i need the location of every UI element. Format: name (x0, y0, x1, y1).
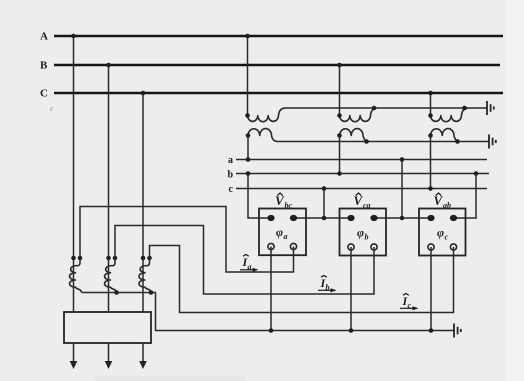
transformer CT2 on phase B (104, 256, 117, 293)
svg-text:φ: φ (276, 225, 283, 239)
transformer PT1 primary winding (248, 108, 285, 122)
arrow load phase B (105, 343, 113, 369)
meter M2 box (340, 209, 387, 256)
wire: phase C feeder down to load box (142, 93, 144, 312)
junction PT2 primary left (337, 113, 342, 118)
junction on B (106, 63, 111, 68)
transformer PT3 secondary winding (431, 129, 460, 142)
wire: node b to meter M1 left voltage terminal (248, 174, 271, 219)
junction PT2 primary right on common (372, 106, 377, 111)
meter M1 name phi-a (276, 225, 288, 241)
net c (236, 188, 487, 190)
wire: phase A feeder down to load box (73, 36, 75, 312)
ground current return bus (454, 324, 461, 338)
junction b / meter3 voltage (474, 171, 479, 176)
meter M3 box (419, 209, 466, 256)
bus line A (54, 35, 503, 38)
wire: M2 current return (350, 247, 352, 331)
svg-text:V: V (275, 193, 285, 208)
junction CT2 on common bus (114, 290, 119, 295)
label current Ia (240, 255, 259, 272)
svg-text:c: c (229, 184, 234, 195)
wire: B tap down to PT2 primary (339, 65, 341, 116)
junction c / PT3 (428, 186, 433, 191)
net a (236, 159, 487, 161)
junction a / PT1 (246, 157, 251, 162)
wire: M3 current return (430, 247, 432, 331)
junction on A at PT1 tap (245, 34, 250, 39)
meter M3 current terminals (428, 244, 434, 250)
wire: PT1 secondary to node a (247, 136, 249, 160)
svg-text:A: A (40, 31, 48, 43)
junction a / meter2-3 voltage (400, 157, 405, 162)
wire: phase B feeder down to load box (108, 65, 110, 312)
transformer PT1 secondary winding (248, 129, 277, 142)
wire: C tap down to PT3 primary (430, 93, 432, 116)
wire: node b down to meter M3 right voltage terminal (454, 174, 477, 219)
label Vbc (275, 193, 293, 210)
transformer PT2 primary winding (340, 108, 377, 122)
junction PT3 primary right on common (462, 106, 467, 111)
junction on A (71, 34, 76, 39)
meter M1 current terminals (268, 243, 274, 249)
junction voltage link c (322, 216, 327, 221)
svg-text:c: c (445, 233, 449, 242)
meter M1 voltage terminals (267, 215, 274, 221)
svg-text:B: B (40, 60, 48, 72)
ground secondary common (489, 135, 496, 149)
bus line B (54, 64, 500, 67)
meter M1 box (259, 209, 306, 256)
wire: CT3 secondary hot to meter M3 current coil (150, 246, 454, 313)
svg-text:a: a (228, 155, 233, 166)
junction PT3 secondary left (428, 133, 433, 138)
junction PT2 secondary left (337, 133, 342, 138)
svg-text:a: a (284, 232, 288, 241)
meter M2 voltage terminals (347, 215, 354, 221)
junction on C at PT3 tap (428, 91, 433, 96)
junction c / meter1-2 voltage (322, 186, 327, 191)
label Vca (354, 193, 371, 210)
junction PT1 secondary left (246, 133, 251, 138)
meter M3 voltage terminals (427, 215, 434, 221)
transformer PT3 primary winding (431, 108, 468, 122)
meter M3 name phi-c (437, 226, 449, 242)
wire: M2 right to M3 left voltage link (374, 217, 431, 219)
junction voltage link a (400, 216, 405, 221)
load box (64, 312, 151, 343)
junction b / meter1 voltage (246, 171, 251, 176)
arrow load phase A (70, 343, 78, 369)
junction M2 return on bus (349, 328, 354, 333)
meter M2 current terminals (348, 244, 354, 250)
svg-text:φ: φ (437, 226, 444, 240)
wire: CT secondary common bus (82, 293, 455, 331)
junction on C (141, 91, 146, 96)
wire: PT2 secondary to node b (339, 136, 341, 174)
bus line C (54, 92, 503, 95)
junction M3 return on bus (429, 328, 434, 333)
label current Ic (400, 294, 419, 311)
wire: M1 right to M2 left voltage link (294, 217, 352, 219)
net b (236, 173, 489, 175)
junction PT3 primary left (428, 113, 433, 118)
transformer CT1 on phase A (69, 256, 82, 293)
wire: node a down to meter M2/M3 voltage link (401, 160, 403, 219)
junction M1 return on bus (269, 328, 274, 333)
wire: PT3 secondary to node c (430, 136, 432, 189)
junction b / PT2 (337, 171, 342, 176)
wire: node c down to meter M1/M2 voltage link (323, 189, 325, 219)
svg-text:φ: φ (357, 226, 364, 240)
junction CT3 on common bus (149, 290, 154, 295)
junction on B at PT2 tap (337, 63, 342, 68)
wire: CT1 secondary hot to meter M1 current coil (80, 207, 294, 273)
ground primary common (487, 101, 494, 115)
svg-text:b: b (227, 170, 233, 181)
transformer PT2 secondary winding (340, 129, 369, 142)
wire: M1 current return (270, 247, 272, 331)
svg-text:C: C (40, 88, 48, 100)
transformer CT3 on phase C (139, 256, 152, 293)
junction PT2 secondary right on common (364, 139, 369, 144)
meter M2 name phi-b (357, 226, 369, 242)
wire: CT2 secondary hot to meter M2 current coil (115, 226, 374, 295)
arrow load phase C (139, 343, 147, 369)
label Vab (434, 193, 452, 210)
junction PT3 secondary right on common (455, 139, 460, 144)
svg-text:V: V (354, 193, 364, 208)
wire: A tap down to PT1 primary (247, 36, 249, 116)
svg-text:V: V (434, 193, 444, 208)
label current Ib (318, 276, 337, 293)
junction PT1 primary left (245, 113, 250, 118)
svg-text:b: b (365, 233, 369, 242)
wire: PT primary common to ground (284, 107, 488, 109)
wire: PT secondary common to ground (276, 141, 489, 143)
